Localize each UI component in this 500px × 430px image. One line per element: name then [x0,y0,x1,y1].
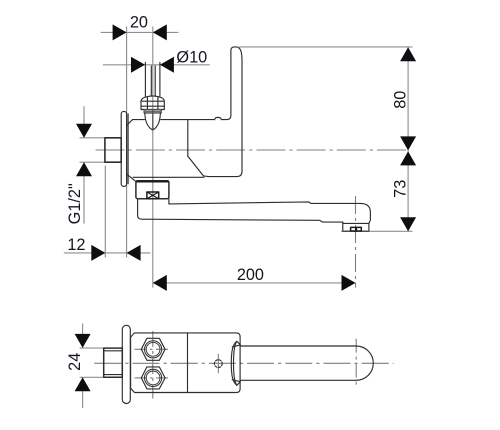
svg-text:24: 24 [66,353,84,371]
svg-text:G1/2": G1/2" [66,183,84,224]
svg-text:12: 12 [67,236,85,254]
svg-text:73: 73 [392,180,410,198]
svg-text:20: 20 [130,13,148,31]
svg-text:80: 80 [392,91,410,109]
svg-text:200: 200 [237,266,264,284]
svg-text:Ø10: Ø10 [176,49,207,67]
